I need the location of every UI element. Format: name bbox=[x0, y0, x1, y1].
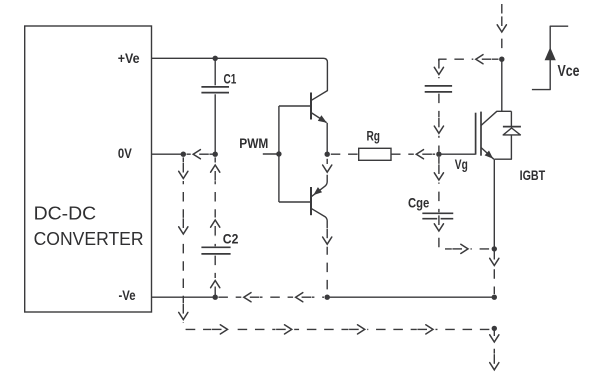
wire IGBT emitter down bbox=[493, 159, 495, 249]
wire C1 top lead bbox=[214, 58, 216, 85]
wire 0V from box bbox=[152, 153, 184, 155]
node collector junction bbox=[499, 57, 504, 62]
wire C1 bottom lead bbox=[214, 94, 216, 154]
arrow up C2 top 1 bbox=[213, 163, 216, 182]
Vce measurement bracket bbox=[532, 26, 568, 89]
node -Ve/Q2 junction bbox=[325, 295, 330, 300]
arrow down tail 1 bbox=[493, 326, 496, 345]
node +Ve/C1 junction bbox=[213, 56, 218, 61]
arrow left -Ve 1 bbox=[241, 296, 260, 299]
wire Q1 emitter to node bbox=[326, 123, 328, 154]
wire dashed collector feed top bbox=[501, 4, 503, 56]
wire Rg to Vg dashed bbox=[391, 153, 436, 155]
wire dashed C2 to -Ve bbox=[214, 256, 216, 295]
arrow right Cge-emitter bbox=[452, 247, 471, 250]
node Vg bbox=[436, 152, 441, 157]
svg-text:C2: C2 bbox=[223, 232, 239, 247]
arrow down top bbox=[500, 16, 503, 35]
wire -Ve solid right bbox=[327, 296, 494, 298]
node driver output bbox=[325, 152, 330, 157]
diode D1 triangle bbox=[503, 128, 520, 135]
svg-text:Vg: Vg bbox=[455, 157, 468, 172]
node PWM junction bbox=[276, 151, 281, 156]
transistor Q2 base bar bbox=[310, 187, 312, 215]
Vce arrow up bbox=[545, 47, 556, 60]
svg-text:Rg: Rg bbox=[367, 128, 381, 143]
wire IGBT collector up bbox=[501, 59, 503, 111]
arrow right bottom 1 bbox=[211, 328, 230, 331]
wire base bus vertical bbox=[278, 106, 280, 202]
wire dashed 0V to C2 bbox=[214, 157, 216, 246]
svg-text:Cge: Cge bbox=[408, 196, 430, 211]
wire diode bottom lead bbox=[494, 135, 511, 159]
arrow down Vg-Cge bbox=[437, 164, 440, 183]
node -Ve/IGBT emitter junction bbox=[492, 295, 497, 300]
wire dashed collector to Cgc bbox=[439, 59, 499, 85]
svg-text:IGBT: IGBT bbox=[520, 168, 546, 183]
capacitor C1 bbox=[201, 87, 229, 93]
wire Q2 emitter dashed bit bbox=[326, 159, 328, 164]
arrow up C2 top 2 bbox=[213, 218, 216, 237]
svg-text:CONVERTER: CONVERTER bbox=[34, 228, 144, 249]
arrow down Cgc-Vg bbox=[437, 117, 440, 136]
wire -Ve dashed mid bbox=[218, 296, 324, 298]
arrow down below Cge bbox=[437, 215, 440, 234]
arrow left on Rg-Vg bbox=[414, 152, 433, 155]
wire dashed Cgc to Vg bbox=[438, 94, 440, 152]
node emitter return junction bbox=[492, 246, 497, 251]
wire dashed left return bbox=[183, 157, 491, 329]
svg-text:DC-DC: DC-DC bbox=[34, 202, 97, 223]
wire node to Rg dashed bbox=[331, 153, 359, 155]
DC-DC converter box U1 bbox=[25, 26, 152, 312]
arrow left -Ve 2 bbox=[293, 296, 312, 299]
wire +Ve rail to Q1 collector bbox=[152, 58, 328, 100]
svg-text:PWM: PWM bbox=[239, 136, 268, 151]
wire dashed Vg to Cge bbox=[438, 157, 440, 212]
arrow up C2 bottom bbox=[213, 278, 216, 294]
arrow right bottom 2 bbox=[276, 328, 295, 331]
node 0V/C2 junction bbox=[213, 152, 218, 157]
arrow down emitter-Ve bbox=[493, 249, 496, 268]
arrow down to Cgc bbox=[437, 63, 440, 78]
wire IGBT collector lead bbox=[481, 111, 511, 125]
svg-text:0V: 0V bbox=[118, 146, 132, 161]
wire IGBT emitter lead bbox=[481, 148, 494, 160]
resistor Rg bbox=[359, 148, 391, 160]
wire dashed bottom tail bbox=[493, 331, 495, 369]
transistor Q1 base bar bbox=[310, 93, 312, 120]
capacitor Cgc bbox=[425, 86, 452, 92]
node bottom return junction bbox=[492, 326, 497, 331]
capacitor Cge bbox=[422, 213, 453, 218]
arrow down left return 2 bbox=[182, 218, 185, 237]
capacitor C2 bbox=[201, 247, 230, 254]
wire dashed emitter junction down bbox=[493, 252, 495, 294]
transistor Q2 emitter arrow bbox=[313, 187, 322, 195]
wire Q2 collector dashed down bbox=[326, 228, 328, 294]
wire 0V dashed link bbox=[187, 153, 216, 155]
transistor Q2 collector lead bbox=[311, 208, 327, 228]
arrow left on 0V link bbox=[191, 152, 210, 155]
svg-text:+Ve: +Ve bbox=[118, 51, 140, 66]
wire Q2 emitter lead bbox=[312, 175, 328, 197]
transistor Q1 emitter arrow bbox=[318, 115, 327, 123]
svg-text:-Ve: -Ve bbox=[119, 288, 136, 303]
node 0V dot A bbox=[181, 152, 186, 157]
wire -Ve from box bbox=[152, 296, 216, 298]
wire PWM lead bbox=[263, 153, 279, 155]
wire diode top lead bbox=[510, 111, 512, 126]
arrow left to Cgc bbox=[473, 58, 492, 61]
wire dashed Cge to emitter bbox=[439, 220, 491, 249]
transistor IGBT body bar bbox=[480, 112, 482, 156]
wire Q2 base lead bbox=[279, 201, 310, 203]
transistor IGBT emitter arrow bbox=[485, 151, 494, 159]
wire Q1 base lead bbox=[279, 105, 310, 107]
arrow down tail 2 bbox=[493, 354, 496, 373]
transistor IGBT gate bar bbox=[475, 113, 477, 155]
arrow right bottom 4 bbox=[417, 328, 436, 331]
wire gate lead bbox=[439, 153, 476, 155]
node -Ve/C2 junction bbox=[213, 295, 218, 300]
arrow down into Q2 emitter bbox=[323, 165, 332, 172]
arrow right bottom 3 bbox=[349, 328, 368, 331]
svg-text:C1: C1 bbox=[224, 72, 237, 87]
diode D1 cathode bar bbox=[503, 126, 521, 128]
arrow down left return 3 bbox=[182, 303, 185, 322]
arrow down on Q2 collector path bbox=[326, 228, 329, 247]
svg-text:Vce: Vce bbox=[558, 63, 580, 80]
transistor Q1 emitter lead bbox=[311, 113, 327, 123]
arrow down left return 1 bbox=[182, 162, 185, 181]
